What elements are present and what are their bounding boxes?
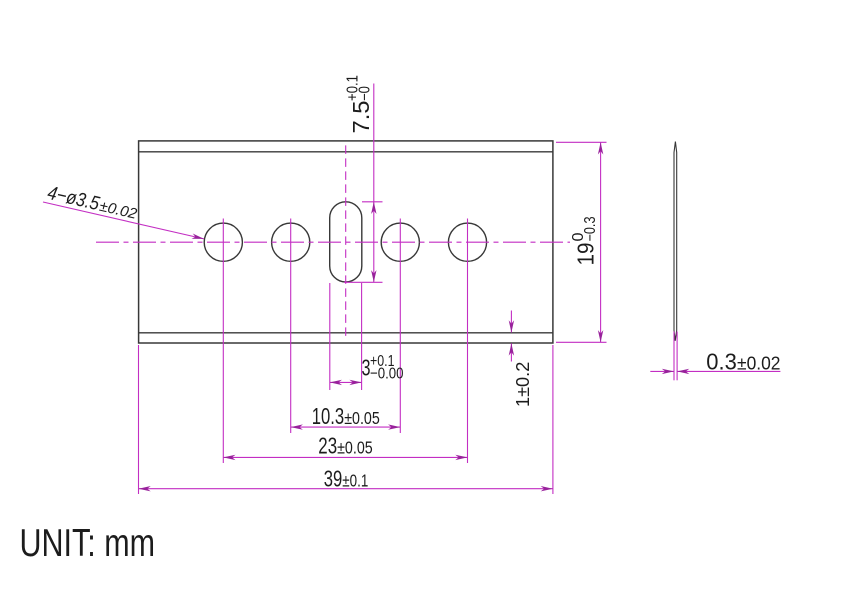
hole H3 vertical centerline / extension to 10.3 dim — [399, 219, 401, 434]
svg-text:UNIT: mm: UNIT: mm — [20, 522, 156, 565]
svg-text:4−ø3.5: 4−ø3.5 — [45, 182, 101, 215]
svg-text:19: 19 — [573, 243, 599, 266]
leader for 4-ø3.5±0.02 holes — [43, 202, 204, 239]
plate bottom inner bend line — [139, 332, 553, 334]
plate outline (front view 39x19) — [139, 141, 553, 343]
svg-text:±0.1: ±0.1 — [342, 470, 368, 490]
blade side view (0.3 thick, pointed ends) — [674, 142, 677, 341]
dimension 0.3±0.02 (blade thickness) — [650, 332, 780, 381]
hole H2 vertical centerline / extension to 10.3 dim — [290, 219, 292, 434]
hole H2 — [272, 223, 310, 261]
horizontal centerline through holes — [96, 241, 570, 243]
dimension 19 0/-0.3 (plate height, right side) — [556, 142, 607, 342]
hole H1 (leftmost) — [204, 223, 242, 261]
svg-text:23: 23 — [318, 432, 337, 458]
svg-text:−0.3: −0.3 — [582, 217, 599, 242]
dimension 7.5 +0.1/-0 (slot height) — [344, 84, 383, 283]
svg-text:7.5: 7.5 — [348, 101, 374, 134]
hole H1 vertical centerline / extension to 23 dim — [222, 219, 224, 464]
svg-text:−0.00: −0.00 — [370, 365, 404, 382]
svg-text:±0.05: ±0.05 — [337, 437, 373, 457]
hole H4 (rightmost) — [448, 223, 486, 261]
svg-text:39: 39 — [324, 465, 343, 491]
dimension 23±0.05 (outer hole spacing) — [223, 456, 467, 458]
svg-text:0.3: 0.3 — [706, 348, 737, 374]
dimension 1±0.2 (bottom bend offset) — [510, 311, 512, 362]
dimension 10.3±0.05 (inner hole spacing) — [291, 426, 401, 428]
hole H4 vertical centerline / extension to 23 dim — [467, 219, 469, 464]
svg-text:±0.02: ±0.02 — [737, 353, 781, 373]
dimension 3 +0.1/-0.00 (slot width) — [330, 283, 362, 390]
center slot (3 x 7.5 obround) — [330, 202, 362, 282]
svg-text:10.3: 10.3 — [312, 403, 344, 429]
plate top inner bend line — [139, 151, 553, 153]
slot vertical centerline (dashed) — [345, 145, 347, 336]
svg-text:±0.05: ±0.05 — [344, 408, 380, 428]
hole H3 — [381, 223, 419, 261]
svg-text:1±0.2: 1±0.2 — [512, 362, 533, 407]
dimension 39±0.1 (overall width) — [139, 345, 553, 494]
svg-text:−0: −0 — [357, 86, 374, 101]
